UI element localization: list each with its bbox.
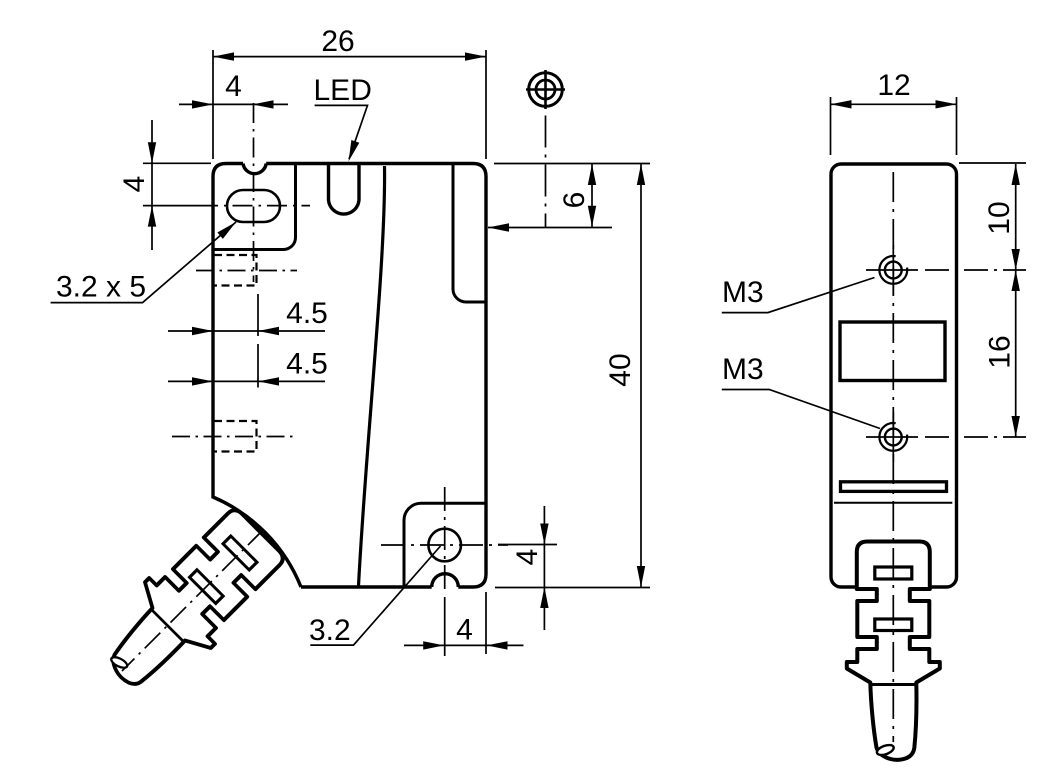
svg-text:10: 10 [983,201,1016,234]
svg-text:6: 6 [558,192,591,209]
svg-text:4: 4 [118,176,151,193]
svg-text:4: 4 [456,614,473,647]
svg-text:40: 40 [604,353,637,386]
svg-text:3.2: 3.2 [309,614,351,647]
svg-text:4: 4 [225,70,242,103]
svg-text:3.2 x 5: 3.2 x 5 [56,271,146,304]
svg-text:M3: M3 [722,353,764,386]
svg-text:4.5: 4.5 [286,348,328,381]
svg-text:LED: LED [314,74,372,107]
svg-text:4.5: 4.5 [286,297,328,330]
svg-text:4: 4 [511,549,544,566]
svg-text:26: 26 [321,25,354,58]
svg-text:12: 12 [877,69,910,102]
svg-text:16: 16 [984,335,1017,368]
svg-text:M3: M3 [722,276,764,309]
